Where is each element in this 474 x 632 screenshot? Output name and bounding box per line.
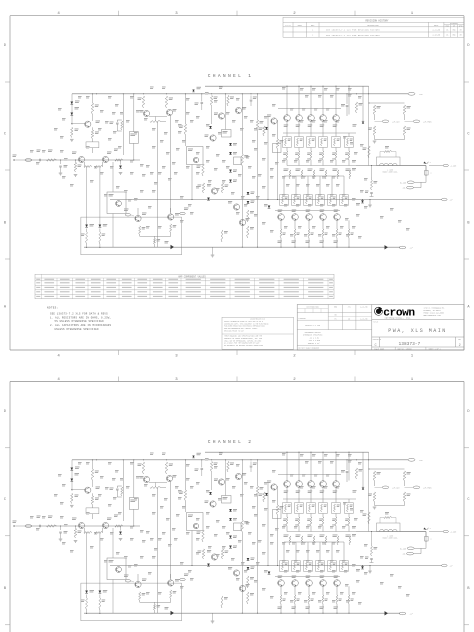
svg-text:C: C xyxy=(375,344,377,348)
emitter resistor box bank1 #1 xyxy=(283,137,291,148)
resistor R137 xyxy=(202,183,204,193)
diode D117 zener xyxy=(362,121,364,123)
transistor Q111 xyxy=(135,215,141,221)
wire bank1 emitter bus xyxy=(283,132,356,134)
svg-text:UNLESS OTHERWISE SPECIFIED: UNLESS OTHERWISE SPECIFIED xyxy=(55,328,100,331)
wire bank2 feed bus xyxy=(284,175,344,177)
svg-text:138373-7: 138373-7 xyxy=(399,343,421,347)
svg-text:1: 1 xyxy=(312,29,313,31)
svg-text:DATE: DATE xyxy=(434,24,438,27)
inductor L100 box xyxy=(377,157,401,166)
title block right rows xyxy=(372,319,464,321)
svg-text:C: C xyxy=(4,132,6,136)
resistor R104 on line xyxy=(115,159,123,161)
resistor R105 lag xyxy=(121,121,123,130)
junction dots on -LF bus xyxy=(191,199,192,200)
svg-text:REV: REV xyxy=(311,25,314,27)
trim pot box R-adj xyxy=(86,142,99,148)
connector LF SENSE xyxy=(374,115,376,120)
emitter resistor box bank2 #5 xyxy=(328,195,336,206)
proprietary notice box xyxy=(222,317,294,349)
component box U101 xyxy=(129,132,138,144)
bias servo box Q106 xyxy=(187,147,204,165)
input connector J101 xyxy=(25,159,32,162)
svg-text:FORTUNE NO: FORTUNE NO xyxy=(373,339,382,341)
svg-text:-1,COM: -1,COM xyxy=(450,166,456,168)
svg-text:REV: REV xyxy=(458,339,461,341)
resistor R128 xyxy=(247,210,249,222)
resistor ladder bank1 #5 xyxy=(335,148,337,152)
svg-text:4-21-00: 4-21-00 xyxy=(360,307,367,309)
resistor bank2 lower #4 xyxy=(322,229,324,238)
svg-text:A: A xyxy=(4,305,7,309)
svg-text:JTL: JTL xyxy=(348,307,351,309)
resistor R154 xyxy=(403,126,405,136)
svg-text:CD: CD xyxy=(348,318,350,320)
svg-text:2. ALL CAPACITORS ARE IN MICRO: 2. ALL CAPACITORS ARE IN MICROFARADS xyxy=(50,324,112,327)
svg-text:B: B xyxy=(467,587,470,591)
wire bank1 emitter stubs xyxy=(286,121,288,136)
thermal breaker CB100 xyxy=(425,166,427,171)
emitter resistor box bank1 #5 xyxy=(332,137,340,148)
svg-text:MR: MR xyxy=(460,29,462,31)
transistor Q105 xyxy=(166,109,172,115)
capacitor C123 xyxy=(371,177,373,180)
svg-text:INTERNATIONAL, INC.: INTERNATIONAL, INC. xyxy=(385,316,412,319)
svg-text:-LF: -LF xyxy=(450,200,453,202)
svg-text:A: A xyxy=(467,305,470,309)
svg-text:REVISION HISTORY: REVISION HISTORY xyxy=(366,19,390,22)
wire top rail B xyxy=(72,93,408,95)
output transistor Q120 bank1 xyxy=(284,115,291,122)
svg-text:JTL: JTL xyxy=(446,35,449,37)
wire Q104-Q105 emitters xyxy=(149,116,167,118)
rev box xyxy=(455,337,457,347)
sheet border frame xyxy=(10,15,464,17)
wire bottom negative rail xyxy=(84,246,400,248)
svg-text:B: B xyxy=(4,221,7,225)
wire vertical x123 xyxy=(122,94,124,155)
resistor R150 xyxy=(368,146,370,158)
resistor R127 xyxy=(263,126,265,136)
svg-text:MR: MR xyxy=(334,314,336,316)
diode D109 xyxy=(229,170,232,173)
connector +LF xyxy=(408,92,415,95)
wire U101 to rail xyxy=(133,94,135,132)
zener diode D113 xyxy=(247,192,250,195)
wire to RL connectors xyxy=(425,175,427,182)
wire V4 xyxy=(277,120,279,139)
transistor Q108 xyxy=(235,107,241,113)
svg-text:OTHERWISE SPECIFIED: OTHERWISE SPECIFIED xyxy=(303,334,322,336)
label row under bank2 xyxy=(278,240,283,243)
resistor R136 xyxy=(221,230,223,242)
transistor Q103 input pair xyxy=(102,156,108,162)
svg-text:1. ALL RESISTORS ARE IN OHMS,: 1. ALL RESISTORS ARE IN OHMS, 0.25W, xyxy=(50,316,111,319)
svg-text:+LF,OUT: +LF,OUT xyxy=(392,121,400,123)
svg-text:J: J xyxy=(430,162,431,164)
diode D111 xyxy=(265,127,268,130)
resistor R133 emitter Q111 xyxy=(139,226,141,235)
svg-text:2: 2 xyxy=(459,344,461,348)
emitter resistor box bank1 #2 xyxy=(295,137,303,148)
wire bank2 emitter drops xyxy=(280,220,282,229)
capacitor C101 xyxy=(39,159,41,162)
emitter resistor box bank2 #6 xyxy=(340,195,348,206)
ground at D103 xyxy=(119,172,123,174)
transistor Q107 xyxy=(218,113,224,119)
resistor ladder bank1 #6 xyxy=(348,148,350,152)
transistor Q113 xyxy=(233,204,239,210)
diode D119 xyxy=(207,198,210,201)
title block outline xyxy=(297,305,464,351)
scattered annotation smudges xyxy=(150,86,154,89)
output transistor Q134 bank2 xyxy=(334,214,341,221)
size box xyxy=(379,337,381,347)
resistor R112 xyxy=(165,96,167,108)
wire diode stack to Q101 base xyxy=(72,122,85,124)
small box D110 xyxy=(234,157,242,165)
wire coil to clip point xyxy=(400,165,426,167)
svg-text:4: 4 xyxy=(57,355,60,359)
resistor ladder bank1 #4 xyxy=(322,148,324,152)
svg-text:MRN: MRN xyxy=(453,29,456,31)
sheet border frame xyxy=(10,381,464,383)
wire diodes to resistors xyxy=(86,229,88,233)
wire servo down xyxy=(191,165,193,200)
resistor R113 emitter degeneration xyxy=(150,121,161,123)
wire vertical x225 xyxy=(225,94,227,130)
svg-text:WWW.CROWNINTL.COM: WWW.CROWNINTL.COM xyxy=(424,315,441,317)
driver heatsink box xyxy=(81,217,182,255)
resistor R126 xyxy=(276,139,278,149)
diode D115 in box xyxy=(85,225,88,228)
resistor R165 over coil xyxy=(384,151,392,153)
revision history table xyxy=(283,17,464,37)
output transistor Q130 bank2 xyxy=(278,214,285,221)
svg-text:DO NOT SCALE DRAWING: DO NOT SCALE DRAWING xyxy=(299,347,319,350)
transistor Q102 input pair xyxy=(78,156,84,162)
svg-text:CHANNEL 1: CHANNEL 1 xyxy=(208,73,254,79)
resistor R120 xyxy=(184,124,186,135)
svg-text:MRN: MRN xyxy=(453,35,456,37)
svg-text:2: 2 xyxy=(312,35,313,37)
diode D109b xyxy=(229,180,232,183)
svg-text:B: B xyxy=(467,221,470,225)
wire lag network xyxy=(117,119,122,121)
svg-text:5% UNLESS OTHERWISE SPECIFIED: 5% UNLESS OTHERWISE SPECIFIED xyxy=(55,320,105,323)
emitter resistor box bank1 #3 xyxy=(307,137,315,148)
capacitor C105 xyxy=(250,96,252,100)
diode D106 xyxy=(209,126,212,129)
transistor Q106 in box xyxy=(193,157,198,162)
resistor R109 emitter xyxy=(84,166,92,168)
svg-text:THESE DRAWINGS AND SPECIFICATI: THESE DRAWINGS AND SPECIFICATIONS ARE TH… xyxy=(224,335,262,338)
long vertical wire V1 xyxy=(241,94,243,154)
resistor bank2 lower #1 xyxy=(280,229,282,238)
diode D107 xyxy=(229,143,232,146)
zener box D105 xyxy=(222,130,232,138)
connector -1,COM xyxy=(429,165,443,167)
resistor R123 xyxy=(241,154,243,166)
diode D117b on rail xyxy=(171,245,175,249)
wire pot to input pair xyxy=(92,148,94,153)
wire diff pair tail xyxy=(157,122,159,248)
wire pair tails down to drivers xyxy=(86,167,88,227)
resistor R124 xyxy=(202,164,204,176)
wire verticals above bank2 boxes xyxy=(283,176,285,195)
resistor bank2 lower #5 xyxy=(336,229,338,238)
long vertical wire V2 xyxy=(257,94,259,120)
resistor R110 emitter xyxy=(95,166,103,168)
emitter resistor box bank2 #1 xyxy=(280,195,288,206)
output transistor Q124 bank1 xyxy=(333,115,340,122)
svg-text:APVD: APVD xyxy=(459,24,463,27)
connector oval driver 1 xyxy=(125,214,131,216)
title block left grid xyxy=(297,312,372,314)
resistor R106 xyxy=(71,128,73,138)
svg-text:CHKD: CHKD xyxy=(446,25,450,27)
long vertical wire V3 xyxy=(267,116,269,200)
resistor R108 xyxy=(91,130,93,139)
output transistor Q123 bank1 xyxy=(320,115,327,122)
resistor R135 to rail xyxy=(154,239,156,245)
svg-text:LICENSE: LICENSE xyxy=(299,318,306,320)
svg-text:CONTROLLED COPY, THIS DOCUMENT: CONTROLLED COPY, THIS DOCUMENT IS THE EL… xyxy=(224,323,269,325)
resistor R132 xyxy=(99,232,101,244)
ground stub mid xyxy=(212,247,214,254)
misc right labels xyxy=(352,159,356,162)
transistor Q104 xyxy=(143,110,149,116)
wire bank1 base bus xyxy=(278,107,341,109)
emitter resistor box bank2 #4 xyxy=(316,195,324,206)
label row under bank1 xyxy=(284,168,289,171)
wire left vertical from rail B xyxy=(71,94,73,125)
driver transistor Q110 xyxy=(271,118,277,124)
svg-text:D: D xyxy=(467,410,469,414)
svg-text:NOTES:: NOTES: xyxy=(47,306,58,309)
diode D121 on bottom rail xyxy=(385,245,389,249)
output transistor Q131 bank2 xyxy=(292,214,299,221)
diode D116 in box xyxy=(99,225,102,228)
ground at R106 xyxy=(70,138,74,140)
emitter resistor box bank1 #4 xyxy=(319,137,327,148)
diode D101 xyxy=(70,102,73,105)
svg-text:TITLE: TITLE xyxy=(373,321,378,323)
output transistor Q121 bank1 xyxy=(296,115,303,122)
node junction dots input xyxy=(60,159,61,160)
wire emitter bus drivers xyxy=(139,235,141,236)
sub network top wire xyxy=(369,102,405,104)
svg-text:MR: MR xyxy=(460,35,462,37)
transistor Q101 xyxy=(85,121,91,127)
svg-text:1: 1 xyxy=(411,355,414,359)
capacitor C102 to ground xyxy=(60,160,62,164)
transistor Q114 xyxy=(239,219,245,225)
resistor R152 xyxy=(373,126,375,136)
amp component values table xyxy=(35,274,334,299)
svg-text:CHANNEL 2: CHANNEL 2 xyxy=(208,439,254,445)
scale row xyxy=(394,347,396,350)
svg-text:SEE 138373-7.2 XLS FOR DATA &: SEE 138373-7.2 XLS FOR DATA & REVS xyxy=(50,313,108,316)
resistor R101 xyxy=(47,159,57,161)
svg-text:APPROVED: APPROVED xyxy=(450,22,458,25)
capacitor C104 xyxy=(201,94,203,102)
output transistor Q122 bank1 xyxy=(308,115,315,122)
wire bank2 base bus xyxy=(275,210,340,212)
svg-text:X: X xyxy=(431,173,432,175)
ground at C102 xyxy=(59,172,63,174)
resistor bank2 lower #6 xyxy=(348,229,350,238)
connector RL sense xyxy=(420,182,422,187)
zone tick marks top xyxy=(118,377,120,382)
svg-text:DR: DR xyxy=(453,25,455,27)
wire vertical x211 xyxy=(211,106,213,124)
box D112 xyxy=(273,144,282,153)
wire collector drops bank 1 xyxy=(286,86,288,114)
resistor row under bank1 bus xyxy=(289,170,291,179)
zener diode D114 xyxy=(247,201,250,204)
vertical wire Q105 branch xyxy=(170,116,172,213)
resistor bank2 lower #3 xyxy=(308,229,310,238)
wire Q101 emitter stub xyxy=(92,127,94,130)
svg-text:+RL: +RL xyxy=(402,188,405,190)
connector -V bottom rail xyxy=(399,246,406,249)
svg-text:SEE 138373-7.1 XLS FOR REVISIO: SEE 138373-7.1 XLS FOR REVISION HISTORY xyxy=(326,29,381,32)
wire Q101 collector xyxy=(92,94,94,103)
diode D103 clamp xyxy=(120,160,122,165)
svg-text:RL,COM: RL,COM xyxy=(400,182,406,184)
svg-text:PUBLISHED RENDITION ELECTRONIC: PUBLISHED RENDITION ELECTRONIC REPRODUCT… xyxy=(224,326,265,328)
connector -LF xyxy=(442,198,448,201)
wire mid output bus xyxy=(110,199,442,201)
diode D118 on -LF bus xyxy=(361,200,364,203)
resistor R107 xyxy=(91,103,93,115)
svg-text:D: D xyxy=(4,410,6,414)
emitter resistor box bank1 #6 xyxy=(345,137,353,148)
wire sub network bottom xyxy=(374,136,376,140)
inductor L100 coil xyxy=(380,163,384,165)
capacitor C103 lag xyxy=(116,120,118,122)
svg-text:4-21-00: 4-21-00 xyxy=(360,318,367,320)
current source box Q116 xyxy=(107,192,126,214)
wire right vertical xyxy=(368,86,370,165)
wire +V top rail A xyxy=(205,85,369,87)
wire bank1 lower bus xyxy=(287,165,356,167)
resistor bank2 lower #2 xyxy=(294,229,296,238)
svg-text:D: D xyxy=(4,44,6,48)
svg-text:C: C xyxy=(4,498,6,502)
resistor R125 xyxy=(256,120,258,130)
wire driver collectors up xyxy=(137,208,139,215)
resistor R131 xyxy=(86,232,88,244)
wire output node line xyxy=(356,165,426,167)
wire box drop xyxy=(133,143,135,160)
transistor Q109 xyxy=(210,135,216,141)
resistor R138 xyxy=(221,183,223,193)
svg-text:DESCRIPTION: DESCRIPTION xyxy=(367,25,378,27)
resistor R134 emitter Q112 xyxy=(170,224,172,233)
diode D102 xyxy=(70,113,73,116)
junction dots rails xyxy=(96,93,97,94)
svg-text:UNCONTROLLED (2): UNCONTROLLED (2) xyxy=(250,319,265,321)
zone tick marks bottom xyxy=(118,350,120,355)
resistor R122 xyxy=(227,96,229,107)
ground sub network xyxy=(373,140,377,142)
crown logo circle xyxy=(374,307,383,316)
svg-text:ZONE: ZONE xyxy=(298,25,302,27)
capacitor C124 w ground xyxy=(370,192,373,194)
svg-text:ANGLES = ±1°: ANGLES = ±1° xyxy=(308,342,320,345)
emitter resistor box bank2 #2 xyxy=(292,195,300,206)
output transistor Q132 bank2 xyxy=(306,214,313,221)
ground symbol mid-bottom xyxy=(211,254,215,256)
svg-text:PWA, XLS MAIN: PWA, XLS MAIN xyxy=(388,328,447,334)
amp table cell text smudges xyxy=(36,278,40,281)
svg-text:DISTRIBUTION: DISTRIBUTION xyxy=(307,307,319,309)
svg-text:D: D xyxy=(467,44,469,48)
svg-text:C: C xyxy=(467,132,469,136)
channel 2 schematic (copy of channel 1 circuit) xyxy=(13,452,457,623)
resistor ladder bank1 #1 xyxy=(286,148,288,152)
svg-text:SCALE NONE: SCALE NONE xyxy=(374,347,384,350)
diode D108 xyxy=(229,152,232,155)
emitter resistor box bank2 #3 xyxy=(304,195,312,206)
wire pair down to current source box xyxy=(112,162,114,192)
wire R120 xyxy=(185,94,187,124)
wire output caps feed xyxy=(371,166,373,178)
resistor ladder bank1 #3 xyxy=(310,148,312,152)
wire current source to rail xyxy=(112,214,114,248)
svg-text:E.C.N: E.C.N xyxy=(285,25,290,27)
svg-text:SHUNT 26MH COIL: SHUNT 26MH COIL xyxy=(382,172,397,174)
svg-text:3: 3 xyxy=(175,355,178,359)
svg-text:138373-7.2 TIF: 138373-7.2 TIF xyxy=(305,325,320,327)
svg-text:2: 2 xyxy=(293,355,296,359)
capacitor C122 xyxy=(346,94,348,104)
amp table grid xyxy=(35,280,334,282)
transistor Q115 vbe multiplier xyxy=(211,188,217,194)
wire input signal line xyxy=(26,159,141,161)
resistor R111 xyxy=(142,96,144,108)
clip junction arrow xyxy=(423,162,426,164)
resistor R129 xyxy=(247,226,249,238)
svg-text:4-18-00: 4-18-00 xyxy=(432,35,440,37)
output transistor Q133 bank2 xyxy=(320,214,327,221)
zone tick marks top xyxy=(118,11,120,16)
resistor R103 to ground xyxy=(75,160,77,163)
svg-text:SHEET 1 OF 2: SHEET 1 OF 2 xyxy=(429,348,441,350)
svg-text:JTL: JTL xyxy=(446,29,449,31)
diode D104 on rail xyxy=(192,90,194,92)
connector LF PRES xyxy=(404,115,406,120)
svg-text:4-21-00: 4-21-00 xyxy=(432,29,440,31)
connector +RL COM xyxy=(407,181,414,184)
svg-text:+LF,PRES: +LF,PRES xyxy=(423,121,432,123)
resistor R151 xyxy=(373,105,375,115)
ground at R103 xyxy=(74,174,78,176)
diode D120 xyxy=(268,206,271,209)
svg-text:-LF: -LF xyxy=(410,248,413,250)
resistor R149 xyxy=(355,102,357,113)
svg-text:DWG NO. 138888: DWG NO. 138888 xyxy=(398,348,412,350)
svg-text:B: B xyxy=(4,587,7,591)
transistor Q112 xyxy=(168,214,174,220)
resistor ladder bank1 #2 xyxy=(298,148,300,152)
svg-text:REVISION PRIOR TO USE: REVISION PRIOR TO USE xyxy=(224,330,244,332)
resistor R121 xyxy=(210,96,212,107)
svg-text:+LF: +LF xyxy=(419,93,423,96)
